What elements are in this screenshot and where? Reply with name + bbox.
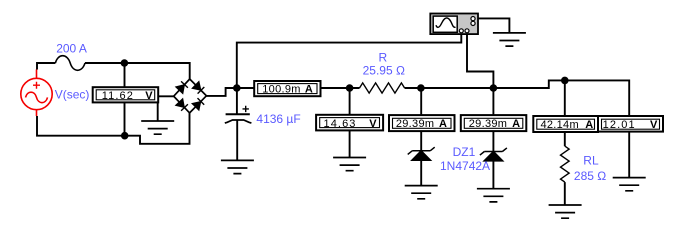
ground under DZ1b — [477, 189, 510, 202]
bridge diode top-right — [193, 82, 205, 94]
svg-text:V(sec): V(sec) — [55, 87, 90, 101]
svg-text:25.95 Ω: 25.95 Ω — [363, 63, 405, 77]
fuse F1 — [55, 56, 85, 71]
junction node J3 — [233, 84, 241, 92]
wire source top to fuse — [37, 63, 55, 70]
junction node J1 — [121, 59, 129, 67]
bridge diode bottom-right — [192, 98, 204, 110]
wire rail resistor R to right jog — [405, 80, 630, 116]
svg-text:29.39m: 29.39m — [469, 118, 508, 130]
ammeter M6 42.14m A — [533, 116, 598, 132]
bridge diode top-left — [176, 81, 188, 93]
junction node J5 — [417, 84, 425, 92]
svg-text:4136 µF: 4136 µF — [256, 112, 300, 126]
wire branch voltmeter 14.63 — [349, 88, 351, 158]
ground oscilloscope — [493, 33, 526, 46]
wire zener DZ1a anode to ground — [420, 160, 422, 185]
zener diode DZ1a — [408, 147, 435, 160]
zener diode DZ1b — [480, 148, 507, 161]
ammeter M5 29.39m A second — [461, 115, 527, 131]
svg-text:A: A — [439, 118, 447, 130]
svg-text:A: A — [585, 119, 593, 131]
svg-text:A: A — [512, 118, 520, 130]
resistor R — [360, 83, 405, 93]
svg-text:12.01: 12.01 — [603, 119, 636, 131]
svg-text:11.62: 11.62 — [102, 90, 134, 102]
svg-text:RL: RL — [583, 154, 599, 168]
wire branch ammeter 29.39 second — [492, 88, 494, 152]
svg-text:V: V — [650, 119, 658, 131]
wire source bottom rail — [37, 113, 190, 144]
ground under bridge left — [141, 121, 174, 134]
capacitor C1 polarized — [225, 106, 252, 123]
svg-text:42.14m: 42.14m — [540, 119, 579, 131]
ammeter M2 100.9m A — [254, 81, 320, 96]
wire oscilloscope ground terminal — [475, 18, 510, 33]
voltmeter M3 14.63 V — [316, 115, 383, 131]
wire branch ammeter 42.14 and RL — [564, 80, 566, 205]
svg-text:29.39m: 29.39m — [396, 118, 435, 130]
wire top rail to ammeter M2 — [237, 87, 360, 89]
svg-text:DZ1: DZ1 — [453, 145, 476, 159]
ground under capacitor — [221, 160, 254, 173]
svg-text:1N4742A: 1N4742A — [440, 159, 490, 173]
wire capacitor branch — [236, 88, 238, 160]
bridge diode bottom-left — [176, 99, 188, 111]
ground under DZ1a — [405, 186, 438, 199]
svg-text:A: A — [305, 84, 313, 96]
voltmeter M7 12.01 V — [598, 116, 663, 132]
ground under RL — [549, 205, 582, 218]
resistor RL vertical — [561, 146, 570, 182]
junction node J2 — [121, 132, 129, 140]
wire branch ammeter 29.39 first — [420, 88, 422, 151]
wire oscilloscope channel A — [237, 33, 461, 89]
bridge rectifier D1 diamond — [174, 79, 207, 113]
wire bridge left to ground — [158, 96, 174, 121]
svg-text:14.63: 14.63 — [323, 118, 356, 130]
wire zener DZ1b anode to ground — [492, 161, 494, 189]
svg-text:V: V — [369, 118, 377, 130]
voltmeter M1 11.62 V — [93, 87, 159, 102]
wire fuse to bridge top — [85, 63, 190, 79]
wire voltmeter V1 branch — [124, 63, 126, 136]
svg-text:100.9m: 100.9m — [262, 84, 301, 96]
ground under 12.01 — [613, 178, 646, 191]
oscilloscope XSC1 — [430, 14, 478, 35]
junction node J7 — [561, 77, 569, 85]
junction node J6 — [490, 84, 498, 92]
AC source V(sec) — [21, 70, 52, 117]
svg-text:200 A: 200 A — [56, 41, 87, 55]
svg-text:R: R — [379, 50, 388, 64]
ground under 14.63 — [333, 158, 366, 171]
svg-text:285 Ω: 285 Ω — [574, 169, 606, 183]
svg-text:V: V — [145, 90, 153, 102]
junction node J4 — [346, 84, 354, 92]
ammeter M4 29.39m A first — [389, 115, 455, 131]
wire bridge right output jog — [206, 88, 236, 96]
wire voltmeter 12.01 to ground — [628, 130, 630, 178]
wire oscilloscope channel B — [467, 33, 493, 89]
